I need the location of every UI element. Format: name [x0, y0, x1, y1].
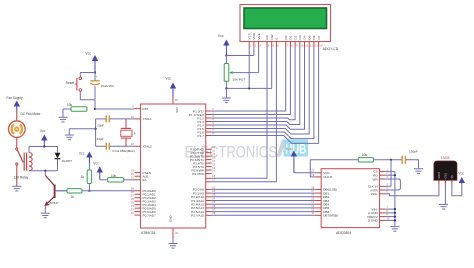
svg-text:10uF/16V: 10uF/16V [101, 84, 115, 88]
svg-text:BC547: BC547 [50, 201, 60, 205]
svg-text:VSS: VSS [247, 33, 251, 39]
svg-text:10K POT: 10K POT [233, 78, 246, 82]
svg-text:10k: 10k [67, 103, 73, 107]
svg-text:1N4007: 1N4007 [62, 159, 73, 163]
svg-text:33pF: 33pF [97, 124, 104, 128]
svg-text:D1: D1 [289, 35, 293, 39]
svg-text:Vcc: Vcc [286, 147, 292, 151]
svg-text:Vcc: Vcc [166, 77, 172, 81]
svg-text:Vcc: Vcc [93, 162, 99, 166]
svg-text:10k: 10k [362, 153, 368, 157]
svg-text:Vcc: Vcc [458, 172, 464, 176]
svg-text:D5: D5 [307, 35, 311, 39]
svg-text:WR: WR [373, 177, 379, 181]
svg-text:VCC: VCC [175, 107, 179, 113]
svg-text:F: F [134, 132, 136, 136]
svg-text:D0: D0 [284, 35, 288, 39]
svg-text:XTAL1: XTAL1 [143, 117, 153, 121]
svg-text:CLK R: CLK R [323, 175, 333, 179]
svg-text:Vcc: Vcc [79, 152, 85, 156]
svg-text:DB7(MSB): DB7(MSB) [323, 214, 338, 218]
svg-text:D6: D6 [312, 35, 316, 39]
svg-text:D7: D7 [317, 35, 321, 39]
svg-text:12V Relay: 12V Relay [14, 176, 29, 180]
svg-text:LM35: LM35 [441, 156, 449, 160]
svg-text:1k: 1k [81, 175, 85, 179]
svg-text:VOUT: VOUT [438, 171, 441, 178]
svg-text:RW: RW [270, 34, 274, 39]
svg-text:Fan Supply: Fan Supply [7, 96, 24, 100]
svg-text:DC Fan Motor: DC Fan Motor [21, 112, 42, 116]
svg-text:D4: D4 [303, 35, 307, 39]
svg-text:VDD: VDD [252, 32, 256, 39]
svg-text:P3.7/RD: P3.7/RD [192, 172, 204, 176]
svg-text:P1.7: P1.7 [198, 134, 205, 138]
svg-text:150pF: 150pF [409, 150, 418, 154]
svg-text:20: 20 [175, 231, 179, 235]
svg-text:Vcc: Vcc [40, 129, 46, 133]
svg-text:AT89C51: AT89C51 [141, 231, 156, 235]
svg-text:D GND: D GND [368, 219, 379, 223]
svg-text:VIN+: VIN+ [371, 192, 378, 196]
svg-text:Vcc: Vcc [218, 34, 224, 38]
svg-text:+: + [96, 75, 98, 79]
svg-text:16X2 LCD: 16X2 LCD [323, 47, 339, 51]
svg-text:GND: GND [445, 173, 448, 179]
svg-text:1k: 1k [71, 195, 75, 199]
svg-text:GND: GND [169, 216, 173, 222]
svg-text:33pF: 33pF [97, 137, 104, 141]
svg-text:D2: D2 [293, 35, 297, 39]
svg-text:ADC0804: ADC0804 [336, 231, 351, 235]
svg-text:XTAL2: XTAL2 [143, 145, 153, 149]
svg-text:D3: D3 [298, 35, 302, 39]
svg-text:40: 40 [175, 98, 179, 102]
svg-text:P0.7/AD7: P0.7/AD7 [143, 213, 157, 217]
svg-text:10k: 10k [111, 174, 117, 178]
svg-text:F=11.0592(MHz): F=11.0592(MHz) [113, 149, 135, 153]
svg-text:Reset: Reset [66, 81, 74, 85]
svg-text:Vcc: Vcc [86, 52, 92, 56]
svg-text:RS: RS [265, 35, 269, 39]
svg-text:VEE: VEE [257, 33, 261, 39]
svg-text:P2.7/A15: P2.7/A15 [191, 214, 204, 218]
svg-text:RST: RST [143, 107, 149, 111]
svg-text:VS: VS [451, 175, 454, 179]
svg-text:E: E [275, 37, 279, 39]
